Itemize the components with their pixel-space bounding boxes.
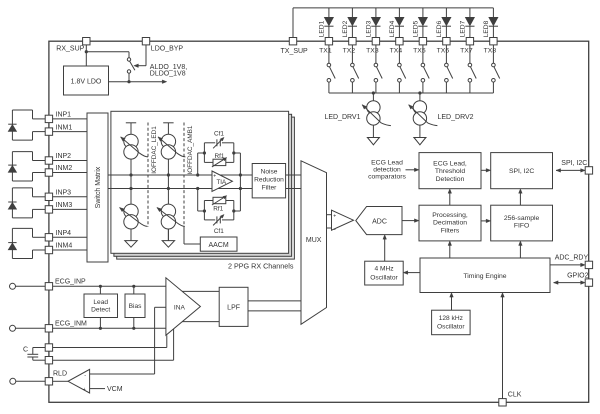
pin TX_SUP	[281, 38, 309, 55]
wire comparators to ECG Lead block	[406, 168, 420, 172]
svg-text:DLDO_1V8: DLDO_1V8	[150, 71, 186, 78]
switch S_TX5	[421, 45, 429, 93]
current source IOFFDAC_LED1 top	[121, 123, 148, 175]
svg-text:TX5: TX5	[413, 48, 426, 55]
svg-text:RLD: RLD	[53, 370, 67, 377]
svg-text:LED4: LED4	[389, 20, 396, 37]
pin INM1	[45, 124, 87, 135]
pin ADC_RDY	[550, 254, 593, 268]
wire VCM input	[90, 386, 123, 393]
svg-text:TX2: TX2	[343, 48, 356, 55]
wire lower feedback loop	[196, 187, 240, 220]
LED D7 LED7	[460, 8, 475, 38]
wire Processing to FIFO	[481, 219, 491, 223]
photodiode PD1	[8, 110, 45, 140]
block Noise Reduction Filter	[252, 164, 285, 198]
LED D3 LED3	[366, 8, 381, 38]
switch S_TX1	[327, 45, 335, 93]
wire ADC to Processing	[402, 219, 419, 223]
svg-text:Filters: Filters	[441, 228, 460, 235]
svg-text:INA: INA	[174, 304, 186, 311]
pin INM2	[45, 165, 87, 176]
instrumentation amplifier INA	[166, 278, 201, 336]
svg-text:Switch Matrix: Switch Matrix	[95, 166, 102, 208]
svg-text:INP2: INP2	[56, 153, 72, 160]
svg-text:CLK: CLK	[508, 391, 522, 398]
wire LED cathode bus	[329, 91, 494, 94]
svg-text:INM1: INM1	[56, 124, 73, 131]
svg-text:AACM: AACM	[208, 242, 228, 249]
svg-text:256-sample: 256-sample	[504, 215, 540, 222]
LED D6 LED6	[436, 8, 451, 38]
LED D1 LED1	[319, 8, 334, 38]
svg-text:Decimation: Decimation	[433, 220, 467, 227]
block Lead Detect	[84, 286, 118, 328]
block AACM	[200, 237, 237, 251]
pin ECG_INP	[10, 279, 87, 291]
svg-text:Rf1: Rf1	[213, 205, 223, 212]
oscillator 4 MHz	[365, 261, 404, 285]
resistor Rf1 (upper)	[204, 153, 233, 167]
svg-text:-: -	[334, 227, 336, 233]
pin C top	[45, 344, 167, 351]
photodiode PD4	[8, 228, 45, 258]
pin SPI I2C	[556, 160, 593, 174]
pin LDO_BYP	[142, 38, 183, 53]
svg-text:1.8V LDO: 1.8V LDO	[71, 79, 102, 86]
wire INA outputs to LPF	[182, 291, 219, 321]
resistor Rf1 (lower)	[204, 196, 233, 213]
svg-text:-: -	[214, 188, 216, 194]
svg-text:INM2: INM2	[56, 165, 73, 172]
svg-text:ECG_INM: ECG_INM	[55, 321, 87, 328]
pin C bottom	[45, 357, 173, 364]
svg-text:IOFFDAC_AMB1: IOFFDAC_AMB1	[187, 125, 194, 174]
pin TX5	[413, 38, 426, 55]
block Timing Engine	[420, 258, 550, 293]
pin RLD	[10, 370, 67, 385]
label ECG Lead detection comparators	[368, 159, 406, 180]
pin INM4	[45, 243, 87, 254]
ground of IOFFDAC_LED1	[125, 229, 137, 247]
svg-text:Reduction: Reduction	[254, 177, 284, 184]
node IOFFDAC_AMB1 on buses	[167, 173, 170, 190]
svg-text:Bias: Bias	[129, 303, 143, 310]
LED D8 LED8	[483, 8, 498, 38]
oscillator 128 kHz	[432, 310, 471, 335]
svg-text:LDO_BYP: LDO_BYP	[151, 46, 184, 53]
wire Timing Engine to FIFO	[519, 241, 523, 258]
op-amp TIA	[212, 171, 232, 194]
net label ALDO_1V8 DLDO_1V8	[150, 64, 187, 77]
pin INP3	[45, 190, 87, 201]
svg-text:Oscillator: Oscillator	[437, 324, 465, 331]
block ADC	[356, 207, 402, 235]
svg-text:TX8: TX8	[484, 48, 497, 55]
svg-text:Threshold: Threshold	[435, 168, 465, 175]
svg-text:LED_DRV1: LED_DRV1	[324, 114, 360, 121]
svg-text:2 PPG RX Channels: 2 PPG RX Channels	[228, 262, 294, 271]
wire MUX to buffer	[327, 215, 332, 228]
ground of LED_DRV1	[368, 138, 380, 145]
svg-text:Timing Engine: Timing Engine	[463, 273, 506, 280]
svg-text:TIA: TIA	[217, 179, 227, 186]
svg-text:Cf1: Cf1	[214, 130, 224, 137]
photodiode PD2	[8, 152, 45, 181]
pin TX8	[484, 38, 497, 55]
regulator 1.8V LDO	[64, 66, 109, 95]
current source IOFFDAC_AMB1 bottom	[157, 175, 185, 241]
switch S_TX6	[445, 45, 453, 93]
wire LDO_BYP to switch	[134, 45, 146, 68]
LED D4 LED4	[389, 8, 404, 38]
multiplexer MUX	[301, 161, 327, 324]
svg-text:ECG Lead: ECG Lead	[371, 159, 403, 166]
svg-text:LED6: LED6	[436, 20, 443, 37]
svg-text:TX_SUP: TX_SUP	[281, 48, 309, 55]
svg-text:MUX: MUX	[306, 237, 322, 244]
ground of IOFFDAC_AMB1	[162, 229, 174, 247]
wire ECG Lead block to SPI	[481, 169, 491, 173]
svg-text:+: +	[333, 213, 336, 219]
switch S_TX7	[468, 45, 476, 93]
svg-text:LED5: LED5	[413, 20, 420, 37]
block Bias	[125, 286, 145, 328]
svg-text:Cf1: Cf1	[214, 228, 224, 235]
wire RX_SUP to LDO	[85, 45, 129, 66]
svg-text:Lead: Lead	[93, 299, 108, 306]
block SPI I2C	[491, 153, 553, 189]
svg-text:ADC: ADC	[372, 218, 387, 225]
wire TIA input bus INP	[108, 174, 252, 176]
wire 128kHz osc to Timing Engine	[450, 293, 454, 311]
svg-text:LED3: LED3	[366, 20, 373, 37]
current source LED_DRV2	[409, 93, 474, 145]
wire Processing to ECG Lead block	[448, 189, 452, 206]
svg-text:TX4: TX4	[390, 48, 403, 55]
dashed box IOFFDAC_AMB1	[184, 123, 194, 228]
pin TX4	[390, 38, 403, 55]
pin CLK	[499, 391, 522, 406]
switch S_TX4	[398, 45, 406, 93]
pin INP4	[45, 230, 87, 241]
wire RLD feedback	[90, 307, 166, 374]
svg-text:Filter: Filter	[262, 184, 277, 191]
switch S_TX2	[351, 45, 359, 93]
svg-text:Rf1: Rf1	[215, 153, 225, 160]
current source LED_DRV1	[324, 93, 390, 145]
svg-text:Detect: Detect	[91, 307, 110, 314]
svg-text:detection: detection	[373, 167, 401, 174]
svg-text:TX6: TX6	[437, 48, 450, 55]
pin GPIO2	[554, 272, 593, 286]
wire C bottom to INA	[173, 328, 175, 360]
wire 4MHz osc to ADC	[383, 235, 387, 262]
svg-text:+: +	[213, 174, 216, 180]
svg-text:INM4: INM4	[56, 243, 73, 250]
svg-text:INP1: INP1	[56, 112, 72, 119]
wire ECG_INP to INA	[53, 285, 166, 288]
svg-text:+: +	[83, 387, 86, 393]
svg-text:LED7: LED7	[460, 20, 467, 37]
wire Timing Engine to 4MHz osc	[403, 271, 420, 275]
svg-text:ADC_RDY: ADC_RDY	[555, 254, 589, 261]
svg-text:Oscillator: Oscillator	[370, 274, 398, 281]
block Switch Matrix	[87, 113, 108, 262]
pin RX_SUP	[56, 38, 90, 53]
block LPF	[219, 287, 248, 326]
node IOFFDAC_LED1 on buses	[129, 173, 132, 190]
capacitor Cf1 (lower)	[204, 214, 233, 234]
photodiode PD3	[8, 188, 45, 218]
svg-text:Noise: Noise	[261, 169, 278, 176]
wire upper feedback loop	[196, 143, 240, 177]
svg-text:ECG Lead,: ECG Lead,	[433, 160, 467, 167]
svg-text:RX_SUP: RX_SUP	[56, 46, 84, 53]
svg-text:TX1: TX1	[319, 48, 332, 55]
pin TX2	[343, 38, 356, 55]
svg-text:LED2: LED2	[342, 20, 349, 37]
block ECG Lead Threshold Detection	[419, 153, 481, 189]
capacitor Cf1 (upper)	[204, 130, 233, 148]
dashed box IOFFDAC_LED1	[148, 123, 158, 228]
svg-text:-: -	[84, 373, 86, 379]
svg-text:IOFFDAC_LED1: IOFFDAC_LED1	[151, 126, 158, 174]
svg-text:LED8: LED8	[483, 20, 490, 37]
svg-text:Processing,: Processing,	[432, 212, 468, 219]
wire TX_SUP LED anode bus	[293, 8, 493, 38]
pin INM3	[45, 202, 87, 213]
wire NRF to MUX	[286, 175, 301, 189]
wire C top to INA	[166, 335, 168, 347]
capacitor C external	[23, 346, 45, 360]
svg-text:SPI, I2C: SPI, I2C	[509, 168, 534, 175]
pin ECG_INM	[10, 321, 88, 333]
svg-text:SPI, I2C: SPI, I2C	[561, 160, 587, 167]
wire LPF to MUX	[248, 301, 301, 311]
svg-text:TX7: TX7	[460, 48, 473, 55]
wire AACM connection	[184, 227, 200, 244]
switch S_TX8	[492, 45, 500, 93]
pin TX3	[366, 38, 379, 55]
pin INP1	[45, 112, 87, 123]
label 2 PPG RX Channels	[228, 262, 294, 271]
wire FIFO to SPI	[519, 189, 523, 206]
PPG channel stacked frames	[111, 111, 295, 259]
wire TIA output node	[239, 153, 242, 211]
svg-text:C: C	[23, 346, 28, 353]
block 256-sample FIFO	[491, 205, 553, 241]
pin TX1	[319, 38, 332, 55]
wire CLK to Timing Engine	[501, 293, 505, 399]
svg-text:INM3: INM3	[56, 202, 73, 209]
svg-text:4 MHz: 4 MHz	[374, 266, 393, 273]
svg-text:LPF: LPF	[227, 304, 240, 311]
wire TIA input bus INM	[108, 188, 252, 190]
wire ALDO/DLDO output	[109, 73, 167, 83]
switch S_TX3	[374, 45, 382, 93]
switch S_LDO_BYP	[127, 58, 135, 73]
op-amp RLD driver	[53, 369, 90, 393]
svg-text:INP4: INP4	[56, 230, 72, 237]
current source IOFFDAC_AMB1 top	[158, 123, 185, 175]
svg-text:TX3: TX3	[366, 48, 379, 55]
svg-text:VCM: VCM	[107, 386, 123, 393]
pin TX6	[437, 38, 450, 55]
op-amp ADC buffer	[332, 210, 354, 233]
svg-text:comparators: comparators	[368, 174, 406, 181]
LED D5 LED5	[413, 8, 428, 38]
current source IOFFDAC_LED1 bottom	[120, 175, 148, 241]
wire Timing Engine to Processing	[448, 241, 452, 258]
svg-text:LED_DRV2: LED_DRV2	[438, 114, 474, 121]
LED D2 LED2	[342, 8, 357, 38]
wire ECG_INM to INA	[53, 327, 166, 330]
pin TX7	[460, 38, 473, 55]
svg-text:INP3: INP3	[56, 190, 72, 197]
svg-text:Detection: Detection	[436, 176, 465, 183]
svg-text:GPIO2: GPIO2	[567, 272, 589, 279]
ground of LED_DRV2	[414, 138, 426, 145]
svg-text:ECG_INP: ECG_INP	[55, 279, 86, 286]
chip boundary	[49, 41, 589, 402]
svg-text:LED1: LED1	[319, 20, 326, 37]
svg-text:128 kHz: 128 kHz	[439, 315, 463, 322]
block Processing Decimation Filters	[419, 205, 481, 241]
pin INP2	[45, 153, 87, 164]
svg-text:FIFO: FIFO	[514, 223, 529, 230]
